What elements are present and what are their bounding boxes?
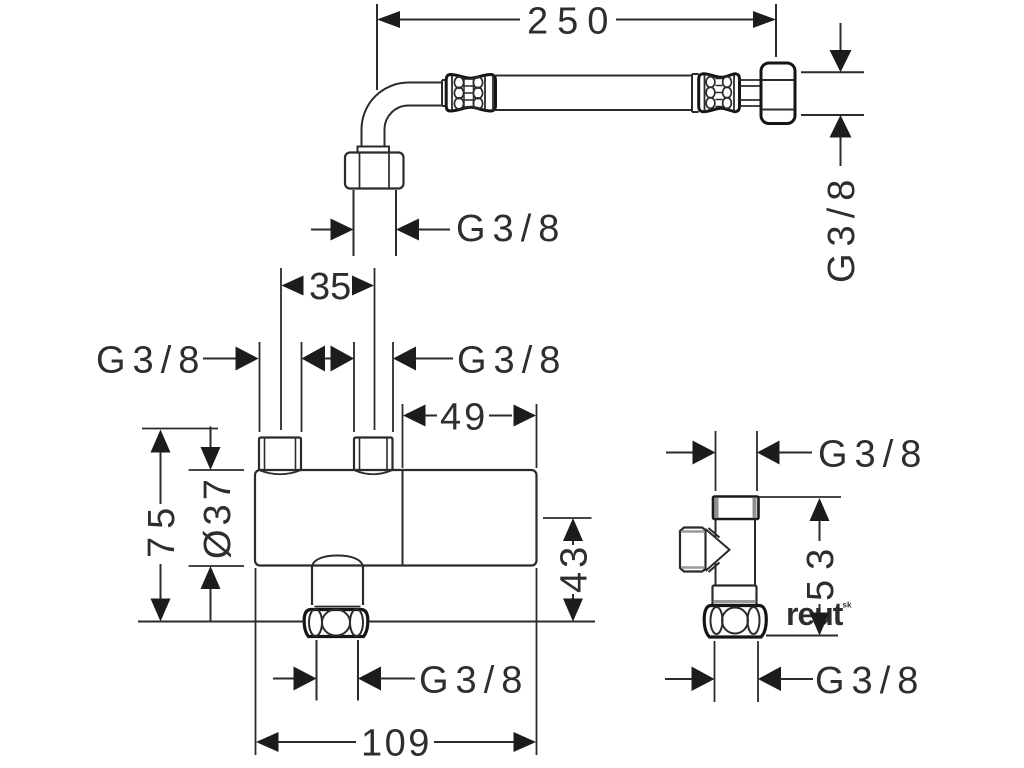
side nut right facet [748,607,760,634]
G3/8 hose arrow right [396,219,419,241]
right crimp collar outline [699,74,740,112]
svg-text:G3/8: G3/8 [456,208,566,250]
valve body [255,470,537,566]
dim 53 arrow up [810,498,830,521]
side cap top extension line [759,496,841,498]
dim 35 arrow right [352,276,374,296]
svg-text:53: 53 [800,539,842,601]
dim 49 extension lines [403,404,537,468]
side collar [713,586,757,606]
side G3/8 bottom leader right [780,678,813,680]
right G3/8 extension lines [801,72,864,115]
side nut left facet [711,607,723,634]
valve body division line [402,470,404,566]
front nut center facet [322,610,350,636]
side tube walls [716,519,756,586]
side outlet bottom gray band [682,566,705,569]
G3/8 hose arrow left [331,219,354,241]
left collar braid circles column 2 [473,77,482,109]
hose elbow inner wall [385,106,443,148]
dim 43 arrow down [563,599,583,622]
dim 250 arrow right [753,11,776,28]
dim 49 line right [489,415,512,417]
dim 75 arrow down [151,599,171,622]
right G3/8 arrow up [830,115,852,138]
svg-text:G3/8: G3/8 [457,340,567,382]
dim 109 line left [278,741,356,743]
neck between collar and nut [740,80,762,106]
elbow nut facets [360,154,390,188]
dim 109 line right [434,741,514,743]
dim 109 arrow right [514,732,537,752]
side nut [704,606,766,638]
svg-text:G3/8: G3/8 [96,340,206,382]
right collar braid circles column 2 [723,77,732,109]
inner gap arrow right [331,346,355,372]
side G3/8 top leader right [779,452,812,454]
dim 49 arrow left [403,405,426,427]
side G3/8 top arrow right [757,441,780,465]
G3/8 hose label leader right [418,229,450,231]
dim O37 arrow up [201,566,221,589]
dim 43 arrow up [563,518,583,541]
dim 75 arrow up [151,430,171,453]
left crimp collar left cap line [451,76,453,110]
side G3/8 bottom arrow left [692,667,715,692]
front outlet nut [304,610,368,637]
side collar gray band [714,600,755,603]
right hose nut [761,63,795,124]
side outlet top gray band [682,530,705,533]
dim O37 top extension line [189,469,245,471]
outlet sides [312,566,363,605]
elbow nut [345,153,404,189]
svg-text:109: 109 [361,723,432,765]
G3/8 front-right arrow [393,347,416,371]
G3/8 bottom leader right [380,678,415,680]
left inlet pipe facets [265,439,296,470]
dim 53 arrow down [810,613,830,636]
dim O37 bottom extension line [189,565,245,567]
dim 53 line upper [819,520,821,541]
left crimp collar right cap band [485,75,493,111]
right G3/8 dim line top [840,23,842,51]
side tube extension lines top [716,431,758,491]
elbow thread extension lines [354,190,397,256]
right hose nut chamfer lines [762,80,795,110]
svg-text:43: 43 [554,543,596,593]
G3/8 front-left leader [203,358,238,360]
G3/8 hose label leader left [311,229,332,231]
right G3/8 arrow down [830,50,852,72]
dim 43 line lower [572,594,574,600]
side outlet cone [706,528,730,572]
dim 250 dimension line [398,19,753,21]
G3/8 front-right leader [416,358,454,360]
side nut center facet [722,608,748,634]
svg-text:35: 35 [309,266,351,308]
svg-text:Ø37: Ø37 [197,475,239,559]
side outlet [680,528,706,572]
side bottom extension lines [715,641,759,702]
left inlet pipe hex [259,438,301,471]
inner gap arrow left [302,346,326,372]
dim 109 arrow left [256,732,279,752]
svg-text:G3/8: G3/8 [818,434,928,476]
dim 43 top extension line [543,517,592,519]
right collar right cap line [733,75,735,110]
svg-text:250: 250 [527,1,617,43]
side G3/8 top arrow left [693,441,716,465]
dim O37 top tail [210,427,212,449]
dim 53 line lower [819,604,821,612]
front pipe inner extension lines [302,342,355,432]
inner gap center tick [325,358,332,360]
left collar braid circles column 1 [454,77,463,109]
dim 250 extension line left [376,4,378,90]
svg-text:G3/8: G3/8 [419,660,529,702]
left collar braid middle lines [464,78,474,108]
straight hose tube walls [496,76,693,111]
svg-text:75: 75 [141,500,183,558]
dim 75 line lower [160,564,162,600]
front pipe outer extension lines [260,342,394,432]
svg-text:G3/8: G3/8 [821,173,863,283]
side G3/8 top leader left [666,452,694,454]
svg-text:sk: sk [843,601,852,610]
dim 250 arrow left [377,11,400,28]
outlet dome [312,556,363,567]
right inlet pipe hex [354,438,393,471]
front nut left facet [309,609,322,636]
right collar braid circles column 1 [706,77,715,109]
dim 35 extension lines [281,268,375,430]
G3/8 bottom arrow left [294,667,317,691]
right inlet pipe bottom arc [354,470,393,474]
G3/8 bottom arrow right [358,667,381,691]
svg-text:G3/8: G3/8 [815,660,925,702]
right collar left cap line [704,75,706,110]
baseline [138,621,595,623]
dim 35 arrow left [282,276,304,296]
hose elbow outer wall [362,82,443,147]
right collar braid middle lines [716,79,723,107]
hose step before collar [442,80,447,106]
dim O37 bottom tail [210,589,212,622]
svg-text:49: 49 [440,397,488,439]
right G3/8 dim line bottom [840,138,842,167]
right inlet pipe facets [360,439,388,470]
dim 49 arrow right [514,405,537,427]
dim 49 line left [425,415,437,417]
side G3/8 bottom arrow right [758,667,781,692]
side nut bottom extension line [766,635,838,637]
dim O37 arrow down [201,447,221,470]
dim 43 line upper [572,540,574,545]
G3/8 front-left arrow [236,347,259,371]
front nut right facet [350,609,363,636]
left crimp collar outline [446,75,495,112]
hose end cap [692,74,699,112]
elbow flange [358,147,390,153]
dim 250 extension line right [775,4,777,57]
dim 75 top extension line [142,428,218,430]
side cap facet band left [715,498,719,518]
G3/8 bottom leader left [273,678,295,680]
outlet nut top face [315,606,361,608]
side cap facet band right [753,498,757,518]
side cap [713,497,759,520]
dim 109 extension lines [256,568,537,755]
dim 75 line upper [160,452,162,504]
left inlet pipe bottom arc [259,470,301,474]
front outlet extension lines below nut [317,640,359,701]
side G3/8 bottom leader left [665,678,693,680]
